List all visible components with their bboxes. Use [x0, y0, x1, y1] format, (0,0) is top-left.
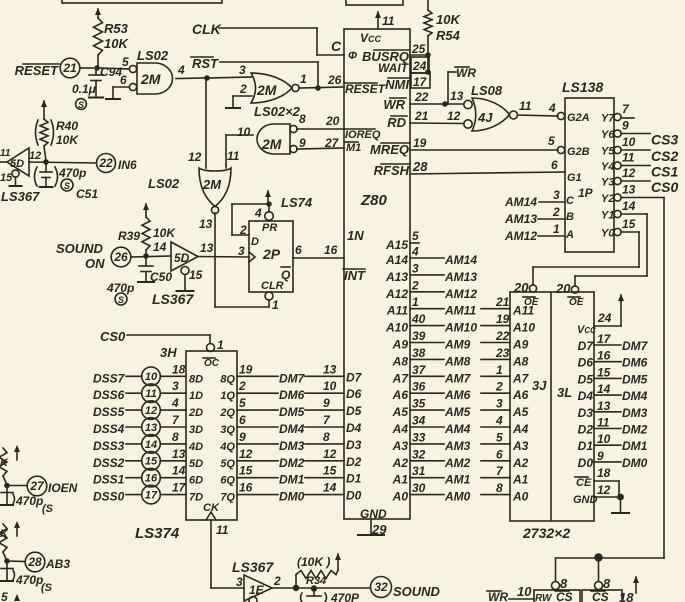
wire Z80 A12 pin 2 to AM bus — [385, 278, 477, 301]
wire LS374 7Q pin 16 via DM0 to Z80 pin 14 — [220, 481, 344, 504]
wire AM14 to pin 3 C — [504, 188, 565, 209]
svg-text:Y0: Y0 — [601, 228, 615, 240]
svg-text:9: 9 — [239, 430, 246, 444]
svg-text:S: S — [64, 181, 70, 191]
svg-text:4J: 4J — [477, 110, 493, 125]
svg-text:(S: (S — [41, 582, 53, 594]
LS138 output Y3 pin 12 — [601, 166, 678, 195]
svg-text:5: 5 — [548, 134, 555, 148]
svg-text:12: 12 — [597, 483, 611, 497]
3L output D4 pin 14 to DM4 — [578, 382, 648, 403]
svg-text:A5: A5 — [392, 405, 409, 419]
flip-flop U-2P LS74 — [238, 221, 293, 292]
svg-text:C50: C50 — [150, 270, 172, 284]
svg-text:K: K — [0, 528, 9, 540]
3L output D6 pin 16 to DM6 — [578, 349, 648, 370]
svg-text:D3: D3 — [578, 406, 594, 420]
cut-off box top-left — [62, 0, 222, 3]
svg-text:19: 19 — [239, 362, 253, 376]
svg-text:3: 3 — [496, 397, 503, 411]
svg-text:R40: R40 — [56, 119, 78, 133]
svg-text:1P: 1P — [578, 186, 594, 200]
svg-text:A5: A5 — [512, 405, 529, 419]
svg-text:LS138: LS138 — [562, 79, 603, 95]
svg-text:11: 11 — [519, 99, 532, 113]
input DSS7 pad 10 to LS374 8D pin 18 — [93, 362, 203, 385]
label LS138 — [562, 79, 603, 95]
svg-text:12: 12 — [29, 150, 41, 162]
svg-text:13: 13 — [450, 89, 464, 103]
wire Z80 A7 pin 37 to AM bus — [392, 363, 530, 386]
svg-text:9: 9 — [299, 136, 306, 150]
1E enable bubble bottom — [249, 597, 257, 602]
wire LS374 5Q pin 12 via DM2 to Z80 pin 12 — [220, 447, 344, 470]
svg-text:13: 13 — [145, 422, 157, 434]
boxed pin 24 WAIT — [411, 57, 431, 75]
svg-text:39: 39 — [412, 329, 426, 343]
node big junction — [594, 553, 602, 561]
net WR label tap — [448, 66, 476, 104]
svg-text:Y3: Y3 — [601, 177, 614, 189]
svg-text:13: 13 — [323, 362, 337, 376]
svg-text:OC: OC — [204, 358, 220, 369]
svg-text:G1: G1 — [567, 172, 582, 184]
svg-text:23: 23 — [495, 346, 510, 360]
svg-text:DSS3: DSS3 — [93, 439, 125, 453]
wire buffer out to 2P clock pin 3 — [198, 252, 249, 257]
svg-text:0.1μ: 0.1μ — [72, 82, 97, 96]
net RST label — [191, 56, 219, 71]
svg-text:AM10: AM10 — [444, 321, 477, 335]
svg-text:5D: 5D — [174, 251, 190, 265]
LS374 CK pin 11 — [203, 502, 229, 537]
svg-text:SOUND: SOUND — [56, 241, 104, 256]
wire AM12 to pin 1 A — [504, 222, 565, 243]
svg-text:26: 26 — [113, 250, 128, 264]
wire Z80 A3 pin 33 to AM bus — [392, 430, 529, 453]
resistor R54 10K pull-up — [424, 0, 461, 73]
net CLK label and wire — [192, 21, 344, 55]
svg-text:DM2: DM2 — [622, 423, 648, 437]
svg-text:2D: 2D — [188, 407, 203, 419]
svg-text:3L: 3L — [557, 385, 572, 400]
resistor R34 10K pull-up — [296, 553, 341, 588]
svg-text:RST: RST — [192, 56, 219, 71]
3L output D7 pin 17 to DM7 — [578, 332, 649, 353]
svg-text:Y6: Y6 — [601, 129, 615, 141]
svg-text:32: 32 — [374, 580, 388, 594]
svg-text:AB3: AB3 — [45, 557, 70, 571]
svg-text:A1: A1 — [512, 473, 529, 487]
svg-text:A7: A7 — [512, 371, 530, 385]
wire 1E out to SOUND pad — [272, 587, 370, 589]
svg-text:NMI: NMI — [385, 77, 409, 92]
svg-text:15: 15 — [239, 464, 253, 478]
connector pad 28 AB3 — [25, 552, 70, 572]
svg-text:A11: A11 — [512, 304, 534, 318]
wire pin9 to Z80 M1 27 — [297, 136, 344, 150]
svg-text:1: 1 — [300, 72, 307, 86]
svg-text:40: 40 — [411, 312, 426, 326]
Z80 A15 pin 5 stub — [385, 229, 419, 252]
svg-text:24: 24 — [412, 59, 427, 73]
wire pin8 to Z80 IOREQ 20 — [297, 114, 344, 129]
wire 2P Qbar pin 6 to Z80 INT 16 — [293, 243, 344, 258]
svg-text:18: 18 — [172, 362, 186, 376]
shield symbol S under C94 — [76, 99, 87, 110]
svg-text:3J: 3J — [532, 378, 547, 393]
wire Z80 A11 pin 1 to AM bus — [386, 295, 535, 318]
svg-text:DSS4: DSS4 — [93, 422, 125, 436]
svg-text:11: 11 — [145, 388, 156, 400]
svg-text:8: 8 — [299, 112, 306, 126]
svg-text:A: A — [565, 229, 574, 241]
svg-text:AM12: AM12 — [444, 287, 477, 301]
label 2732x2 — [522, 525, 570, 541]
wire LS374 clock from 1E — [211, 520, 244, 588]
LS138 output Y5 pin 10 — [601, 135, 678, 164]
svg-text:D7: D7 — [578, 339, 595, 353]
svg-text:28: 28 — [27, 555, 42, 569]
svg-text:CS0: CS0 — [100, 329, 126, 344]
wire Z80 A9 pin 39 to AM bus — [392, 329, 529, 352]
svg-text:C: C — [566, 195, 575, 207]
svg-text:16: 16 — [597, 349, 611, 363]
gate U-2M-d LS02 NOR vertical pins 12,11 out 13 — [188, 149, 240, 231]
input DSS1 pad 16 to LS374 6D pin 14 — [93, 464, 203, 487]
svg-text:4Q: 4Q — [219, 441, 235, 453]
svg-text:12: 12 — [145, 405, 157, 417]
svg-text:Y7: Y7 — [601, 113, 615, 125]
capacitor 470p AB3 to ground — [1, 562, 53, 594]
svg-text:2M: 2M — [140, 71, 161, 87]
svg-text:AM7: AM7 — [444, 371, 472, 385]
input DSS4 pad 13 to LS374 3D pin 7 — [93, 413, 203, 436]
wire Z80 A6 pin 36 to AM bus — [392, 380, 529, 403]
LS138 output Y4 pin 11 — [601, 151, 678, 180]
svg-text:16: 16 — [239, 481, 253, 495]
capacitor 470p at 1E output — [301, 591, 361, 602]
svg-text:A10: A10 — [385, 321, 408, 335]
svg-text:10: 10 — [237, 125, 251, 139]
svg-text:12: 12 — [323, 447, 337, 461]
svg-text:13: 13 — [622, 183, 636, 197]
svg-text:A14: A14 — [385, 253, 408, 267]
svg-text:13: 13 — [172, 447, 186, 461]
svg-text:30: 30 — [412, 481, 426, 495]
shield symbol S under C51 — [61, 179, 98, 201]
svg-text:1: 1 — [553, 222, 560, 236]
svg-text:8: 8 — [172, 430, 179, 444]
svg-text:(S: (S — [42, 503, 54, 515]
net CS0 to LS374 OC — [100, 329, 210, 344]
svg-text:15: 15 — [189, 268, 203, 282]
wire node to gate pin 3 — [207, 77, 252, 78]
label LS367 — [152, 291, 194, 307]
svg-text:CS1: CS1 — [651, 164, 678, 180]
wire pad26 to buffer — [131, 256, 171, 257]
svg-text:LS08: LS08 — [471, 83, 503, 98]
svg-text:AM2: AM2 — [444, 456, 471, 470]
svg-text:10: 10 — [145, 371, 158, 383]
svg-text:RESET: RESET — [345, 82, 387, 96]
svg-text:LS02×2: LS02×2 — [254, 104, 301, 119]
gate U-4J LS08 — [464, 98, 518, 131]
svg-text:12: 12 — [447, 109, 461, 123]
svg-text:CS: CS — [556, 590, 573, 602]
label LS08 — [471, 83, 503, 98]
svg-text:14: 14 — [597, 382, 611, 396]
cut-off box top-center — [346, 0, 403, 5]
capacitor 470p IOEN to ground — [1, 486, 54, 515]
resistor partial top IOEN — [0, 445, 20, 485]
ground at gate pin 2 — [226, 96, 252, 108]
svg-text:4D: 4D — [188, 441, 203, 453]
svg-text:WR: WR — [456, 66, 476, 80]
svg-text:3: 3 — [553, 188, 560, 202]
svg-text:18: 18 — [597, 466, 611, 480]
LS138 output Y7 pin 7 — [601, 102, 634, 125]
svg-text:AM8: AM8 — [444, 354, 471, 368]
wire pad21 to gate — [80, 68, 129, 69]
svg-text:DM0: DM0 — [279, 490, 305, 504]
svg-text:DSS1: DSS1 — [93, 473, 125, 487]
svg-text:A4: A4 — [392, 422, 409, 436]
svg-text:8Q: 8Q — [220, 373, 235, 385]
svg-text:27: 27 — [29, 479, 45, 493]
buffer 5D LS367 output left — [0, 148, 41, 176]
svg-text:20: 20 — [513, 280, 529, 295]
svg-text:WR: WR — [488, 590, 508, 602]
svg-text:Y4: Y4 — [601, 161, 614, 173]
svg-text:AM9: AM9 — [444, 338, 471, 352]
node junction R39/C50 — [143, 253, 149, 259]
node 3L ground junction — [612, 494, 629, 513]
LS138 G2A input — [557, 112, 589, 124]
svg-text:9: 9 — [323, 396, 330, 410]
wire buffer to pad 22 — [29, 162, 96, 163]
resistor R40 10K pull-up — [36, 100, 80, 161]
net C clock label — [331, 38, 342, 54]
5D enable pin 15 ground — [0, 170, 22, 186]
svg-text:1N: 1N — [347, 228, 364, 243]
svg-text:D0: D0 — [346, 489, 362, 503]
svg-text:G2B: G2B — [567, 146, 590, 158]
svg-text:DSS5: DSS5 — [93, 405, 125, 419]
wire Z80 RD pin 21 to 4J pin 12 — [410, 109, 464, 124]
svg-text:AM1: AM1 — [444, 473, 471, 487]
wire Z80 A2 pin 32 to AM bus — [392, 447, 529, 470]
svg-text:5D: 5D — [10, 158, 24, 170]
svg-text:R34: R34 — [306, 575, 326, 587]
svg-text:10K: 10K — [153, 226, 176, 240]
LS138 output Y6 pin 9 — [601, 119, 678, 148]
LS138 G1 input — [567, 172, 582, 184]
svg-text:6Q: 6Q — [220, 475, 235, 487]
svg-text:21: 21 — [62, 61, 77, 75]
svg-text:10K: 10K — [436, 12, 461, 27]
LS138 output Y2 pin 13 — [601, 183, 636, 206]
svg-text:S: S — [78, 100, 84, 110]
svg-text:16: 16 — [145, 473, 158, 485]
svg-text:9: 9 — [622, 119, 629, 133]
svg-text:15: 15 — [0, 172, 13, 184]
svg-text:A6: A6 — [392, 388, 409, 402]
svg-text:25: 25 — [411, 42, 426, 56]
svg-text:A12: A12 — [385, 287, 408, 301]
label LS74 — [281, 195, 313, 210]
svg-text:20: 20 — [555, 281, 571, 296]
input DSS3 pad 14 to LS374 4D pin 8 — [93, 430, 203, 453]
svg-text:15: 15 — [145, 456, 158, 468]
svg-text:DM7: DM7 — [279, 371, 306, 385]
svg-text:IN6: IN6 — [118, 158, 137, 172]
svg-text:4: 4 — [177, 63, 185, 77]
wire Z80 A13 pin 3 to AM bus — [385, 261, 477, 284]
svg-text:6: 6 — [120, 73, 127, 87]
3L OE pin 20 bubble — [555, 281, 584, 308]
svg-text:5: 5 — [412, 229, 419, 243]
svg-text:2M: 2M — [261, 136, 282, 152]
boxed pin 17 NMI — [411, 73, 430, 89]
svg-text:5Q: 5Q — [220, 458, 235, 470]
LS138 output Y1 pin 14 — [601, 199, 636, 222]
svg-text:A10: A10 — [512, 321, 535, 335]
svg-text:(10K ): (10K ) — [297, 555, 330, 569]
buffer 5D enable pin 15 to ground — [177, 267, 203, 292]
node junction AB3 — [4, 558, 25, 564]
svg-text:A2: A2 — [512, 456, 529, 470]
svg-text:3: 3 — [412, 261, 419, 275]
connector pad 32 SOUND — [371, 577, 441, 600]
wire D pin 2 tied to PR — [232, 204, 269, 235]
wire gate out 13 to 2P CLR — [215, 213, 269, 307]
svg-text:A3: A3 — [512, 439, 529, 453]
svg-text:AM4: AM4 — [444, 422, 471, 436]
wire Z80 A0 pin 30 to AM bus — [392, 481, 529, 504]
svg-text:20: 20 — [325, 114, 340, 128]
svg-text:15: 15 — [622, 217, 636, 231]
svg-text:MREQ: MREQ — [370, 142, 409, 157]
svg-text:4: 4 — [171, 396, 179, 410]
svg-text:14: 14 — [145, 439, 157, 451]
partial label 5 bottom-left — [1, 590, 20, 602]
svg-text:11: 11 — [597, 416, 610, 430]
Z80 ground pin 29 — [358, 519, 387, 537]
net WR to RAM RW pin 10 — [487, 584, 534, 602]
latch U-3H LS374 body — [186, 351, 237, 520]
wire BUSRQ pin 25 — [410, 42, 431, 58]
svg-text:10: 10 — [323, 379, 337, 393]
svg-text:IOEN: IOEN — [48, 481, 78, 495]
svg-text:4: 4 — [495, 414, 503, 428]
LS138 CBA select inputs — [565, 195, 575, 241]
svg-text:17: 17 — [172, 481, 187, 495]
input DSS2 pad 15 to LS374 5D pin 13 — [93, 447, 203, 470]
svg-text:2Q: 2Q — [219, 407, 235, 419]
svg-text:D3: D3 — [346, 438, 362, 452]
svg-text:R53: R53 — [104, 21, 129, 36]
svg-text:11: 11 — [216, 523, 229, 537]
svg-text:LS367: LS367 — [232, 559, 274, 575]
svg-text:12: 12 — [188, 150, 202, 164]
wire Z80 WR pin 22 to 4J pin 13 — [410, 89, 464, 107]
svg-text:21: 21 — [495, 295, 510, 309]
svg-text:VCC: VCC — [360, 31, 382, 45]
svg-text:6: 6 — [496, 447, 503, 461]
svg-text:35: 35 — [412, 397, 426, 411]
svg-text:22: 22 — [495, 329, 510, 343]
svg-text:M1: M1 — [346, 142, 361, 154]
wire Z80 A5 pin 35 to AM bus — [392, 397, 529, 420]
EPROM U-3J/3L 2732x2 body — [510, 292, 594, 521]
svg-text:DM3: DM3 — [622, 406, 648, 420]
svg-text:17: 17 — [597, 332, 612, 346]
svg-text:2: 2 — [273, 574, 281, 588]
wire pin10 input — [226, 135, 253, 168]
svg-text:A13: A13 — [385, 270, 408, 284]
svg-text:SOUND: SOUND — [393, 584, 441, 599]
svg-text:4: 4 — [548, 101, 556, 115]
svg-text:2: 2 — [411, 278, 419, 292]
svg-text:A11: A11 — [386, 304, 408, 318]
svg-text:DM5: DM5 — [279, 405, 305, 419]
label 3H — [160, 345, 177, 360]
svg-text:15: 15 — [597, 365, 611, 379]
RAM box2 pin 18 pull-up arrow — [619, 576, 639, 602]
svg-text:5: 5 — [1, 590, 8, 602]
svg-text:10: 10 — [517, 584, 532, 599]
svg-text:2M: 2M — [202, 177, 222, 192]
wire LS374 2Q pin 5 via DM5 to Z80 pin 9 — [219, 396, 344, 419]
3L output D0 pin 9 to DM0 — [578, 449, 648, 470]
svg-text:11: 11 — [0, 148, 11, 159]
svg-text:DSS0: DSS0 — [93, 490, 125, 504]
capacitor C50 470p to ground — [106, 257, 172, 295]
wire Z80 A14 pin 4 to AM bus — [385, 245, 477, 268]
svg-text:22: 22 — [414, 90, 429, 104]
svg-text:16: 16 — [324, 243, 338, 257]
decoder U-1P LS138 body — [565, 98, 614, 252]
svg-text:3D: 3D — [189, 424, 203, 436]
svg-text:DM5: DM5 — [622, 372, 648, 386]
svg-text:7D: 7D — [189, 492, 203, 504]
wire LS374 6Q pin 15 via DM1 to Z80 pin 15 — [220, 464, 344, 487]
capacitor C94 0.1u to ground — [72, 65, 122, 98]
wire Y0 to 3J OE — [533, 232, 639, 285]
svg-text:RW: RW — [535, 593, 553, 602]
svg-text:8: 8 — [496, 481, 503, 495]
svg-text:2: 2 — [238, 379, 246, 393]
svg-text:DM3: DM3 — [279, 439, 305, 453]
node junction IOEN — [4, 483, 27, 489]
svg-text:LS367: LS367 — [152, 291, 194, 307]
net RESET input label — [15, 63, 59, 78]
wire LS374 8Q pin 19 via DM7 to Z80 pin 13 — [220, 362, 344, 385]
svg-text:A15: A15 — [385, 238, 408, 252]
svg-text:CLK: CLK — [192, 21, 222, 37]
svg-text:37: 37 — [412, 363, 427, 377]
resistor R53 10K pull-up — [94, 8, 130, 66]
svg-text:DM4: DM4 — [279, 422, 305, 436]
3L output D1 pin 10 to DM1 — [578, 432, 648, 453]
RAM box 1 RW/CS pin 8 — [534, 576, 580, 602]
3L GND pin 12 to ground — [573, 483, 619, 506]
svg-text:3Q: 3Q — [220, 424, 235, 436]
svg-text:G2A: G2A — [567, 112, 590, 124]
svg-text:DM4: DM4 — [622, 389, 648, 403]
svg-text:12: 12 — [622, 166, 636, 180]
